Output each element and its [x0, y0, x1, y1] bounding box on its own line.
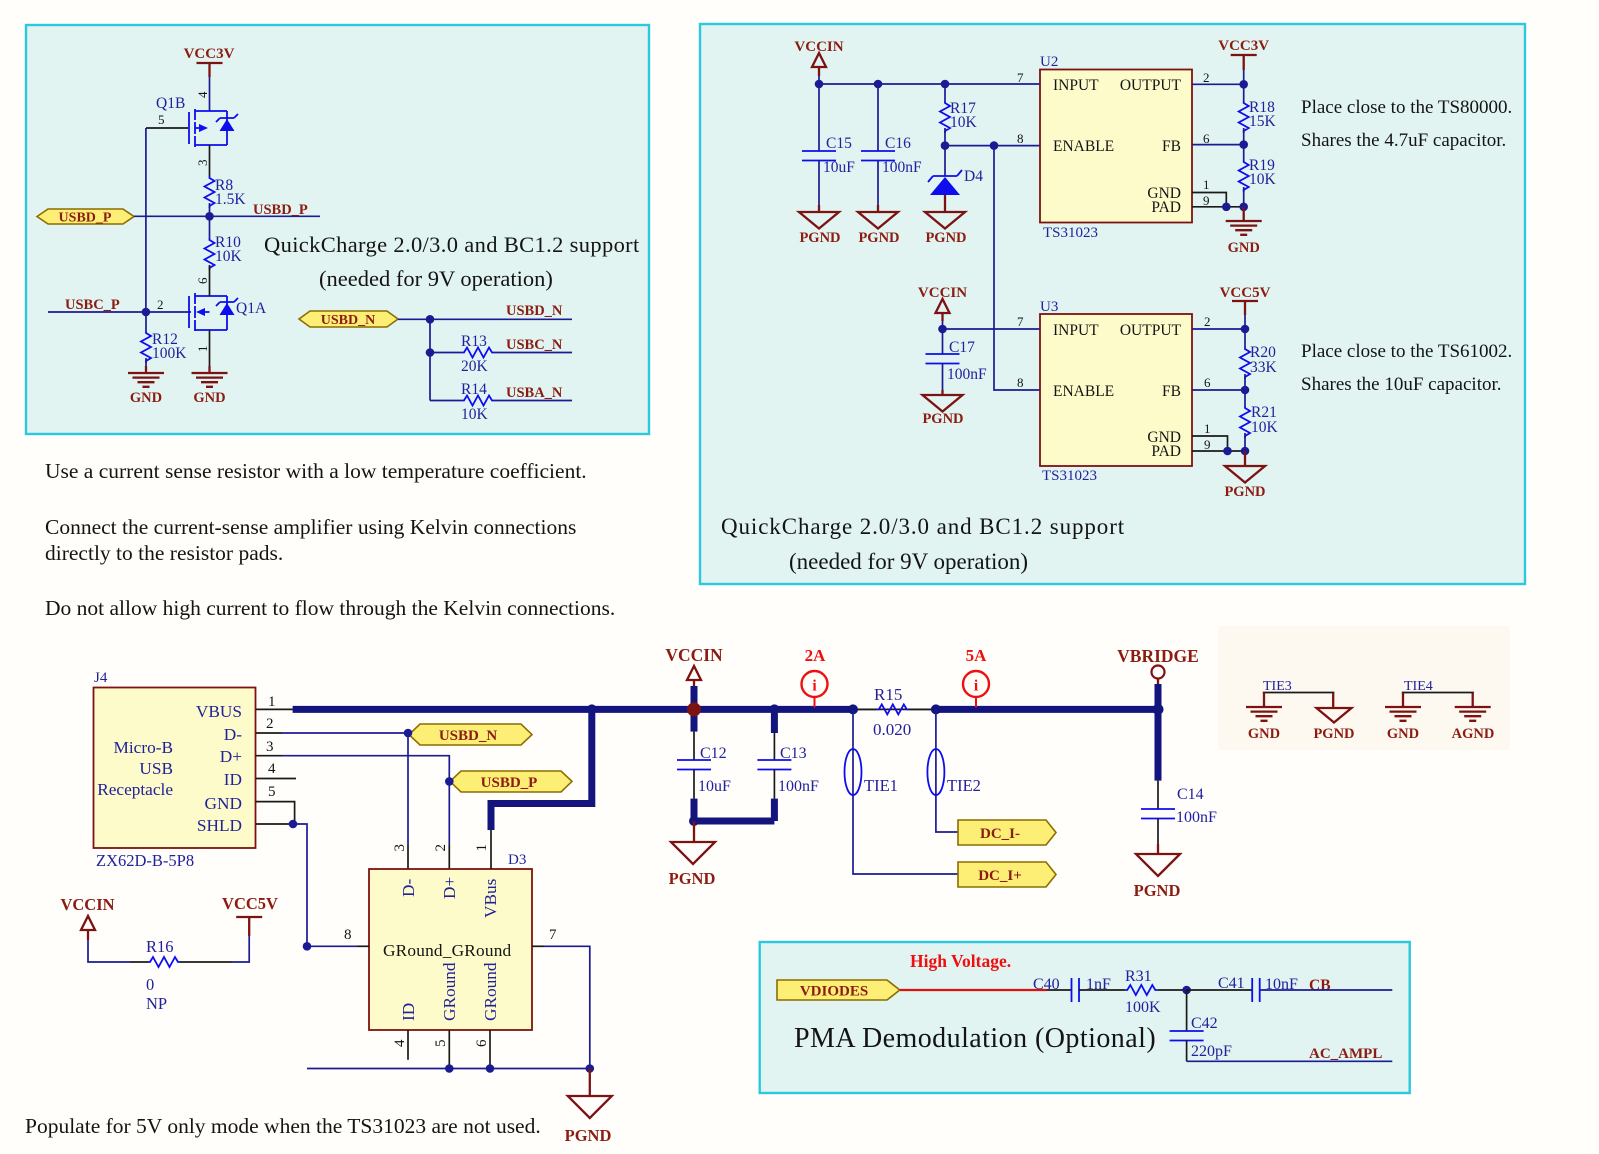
- power flag VCCIN (U2 input): [794, 39, 843, 84]
- svg-text:6: 6: [195, 277, 210, 284]
- resistor R14: [430, 381, 572, 423]
- svg-text:CB: CB: [1309, 977, 1331, 994]
- svg-text:C15: C15: [826, 135, 852, 152]
- svg-text:R13: R13: [461, 333, 487, 350]
- svg-text:Place close to the TS80000.: Place close to the TS80000.: [1301, 97, 1512, 118]
- ground PGND under C15: [799, 212, 841, 246]
- svg-text:AC_AMPL: AC_AMPL: [1309, 1046, 1382, 1062]
- wire ground rail bottom: [307, 1068, 590, 1070]
- svg-text:TS31023: TS31023: [1042, 468, 1097, 484]
- resistor R20: [1240, 329, 1278, 390]
- svg-text:10uF: 10uF: [823, 159, 855, 176]
- svg-text:100nF: 100nF: [882, 159, 922, 176]
- svg-text:GND: GND: [1228, 240, 1260, 256]
- svg-text:GRound_GRound: GRound_GRound: [383, 941, 512, 960]
- svg-text:VCC3V: VCC3V: [184, 46, 235, 62]
- op-amp U2 regulator TS31023: [1040, 54, 1192, 241]
- svg-text:R16: R16: [146, 937, 174, 956]
- wire U3 PAD pin9: [1192, 450, 1245, 452]
- svg-text:D3: D3: [508, 852, 526, 868]
- svg-text:8: 8: [1017, 131, 1024, 146]
- wire D3 pin5: [448, 1030, 450, 1069]
- svg-text:PGND: PGND: [565, 1126, 612, 1145]
- wire J4 D+ pin3: [256, 755, 282, 757]
- port flag VDIODES: [777, 980, 900, 1000]
- wire J4 GND pin5: [256, 802, 295, 824]
- wire U2 OUTPUT: [1192, 83, 1244, 85]
- capacitor C17: [926, 329, 988, 395]
- svg-text:0.020: 0.020: [873, 720, 911, 739]
- resistor R18: [1239, 84, 1277, 144]
- wire U3 OUTPUT: [1192, 328, 1245, 330]
- svg-text:GND: GND: [130, 390, 162, 406]
- svg-text:5: 5: [433, 1040, 449, 1048]
- svg-text:10K: 10K: [461, 406, 489, 423]
- svg-text:PGND: PGND: [922, 411, 963, 427]
- svg-text:VCC3V: VCC3V: [1218, 38, 1269, 54]
- wire Q1A source to GND: [209, 330, 211, 366]
- ground PGND under C12: [669, 821, 716, 888]
- svg-text:GND: GND: [1387, 726, 1419, 742]
- resistor R15: [853, 685, 936, 739]
- wire enable chain down to U3: [994, 146, 1040, 390]
- svg-text:2: 2: [1203, 70, 1210, 85]
- ground PGND bottom rail: [565, 1069, 612, 1146]
- wire D3 pin4 stub: [407, 1030, 409, 1060]
- wire U2 FB: [1192, 144, 1244, 146]
- wire thick VBus branch to D3: [491, 709, 592, 830]
- svg-text:VBRIDGE: VBRIDGE: [1117, 646, 1199, 666]
- svg-text:9: 9: [1203, 193, 1210, 208]
- ground GND (TIE4): [1385, 707, 1421, 742]
- svg-text:5A: 5A: [966, 646, 988, 665]
- wire USBD_P node to R10: [209, 216, 211, 238]
- net tie TIE1: [845, 709, 959, 874]
- svg-text:PGND: PGND: [1313, 726, 1354, 742]
- svg-text:100nF: 100nF: [947, 366, 987, 383]
- svg-text:ID: ID: [224, 770, 242, 789]
- svg-text:USBC_N: USBC_N: [506, 337, 563, 353]
- power flag VCCIN (R16): [60, 895, 130, 962]
- svg-text:(needed for 9V operation): (needed for 9V operation): [319, 266, 553, 291]
- transistor Q1B: [146, 95, 238, 147]
- wire USBC_P: [48, 311, 191, 313]
- svg-text:Q1A: Q1A: [236, 300, 267, 317]
- svg-text:3: 3: [266, 739, 274, 755]
- svg-text:Shares the 10uF capacitor.: Shares the 10uF capacitor.: [1301, 374, 1502, 395]
- port flag USBD_N: [299, 311, 398, 328]
- wire J4 ID pin4: [256, 778, 296, 780]
- svg-text:OUTPUT: OUTPUT: [1120, 77, 1182, 94]
- connector J4 micro-B USB: [94, 670, 256, 870]
- resistor R8: [205, 176, 247, 208]
- resistor R31: [1079, 968, 1187, 1016]
- svg-text:USBD_P: USBD_P: [59, 211, 112, 226]
- svg-text:VBus: VBus: [481, 878, 500, 918]
- port flag USBD_P: [37, 209, 134, 226]
- svg-text:J4: J4: [94, 670, 108, 686]
- svg-text:VCC5V: VCC5V: [222, 894, 278, 913]
- svg-text:QuickCharge 2.0/3.0 and BC1.2: QuickCharge 2.0/3.0 and BC1.2 support: [264, 232, 640, 257]
- net tie TIE2: [927, 709, 981, 832]
- svg-text:D+: D+: [220, 747, 242, 766]
- port flag USBD_P (J4): [450, 771, 572, 792]
- wire CB: [1260, 989, 1393, 991]
- ground GND under R12: [128, 373, 164, 406]
- diode D4 zener: [928, 146, 983, 212]
- power flag VCC3V (U2 out): [1218, 38, 1269, 84]
- capacitor C13: [757, 709, 819, 821]
- svg-text:10uF: 10uF: [698, 778, 731, 795]
- svg-text:10K: 10K: [1249, 171, 1277, 188]
- svg-text:INPUT: INPUT: [1053, 77, 1099, 94]
- svg-text:C42: C42: [1191, 1015, 1218, 1032]
- current probe 5A: [963, 646, 989, 708]
- svg-text:C17: C17: [949, 339, 975, 356]
- ground GND under Q1A: [192, 373, 228, 406]
- svg-text:GND: GND: [193, 390, 225, 406]
- svg-text:VCCIN: VCCIN: [60, 895, 114, 914]
- power flag VCC5V (U3 out): [1220, 285, 1271, 329]
- svg-text:1: 1: [268, 694, 276, 710]
- svg-text:10K: 10K: [950, 114, 978, 131]
- wire U3 FB: [1192, 389, 1245, 391]
- svg-text:TIE2: TIE2: [947, 776, 981, 795]
- svg-text:D4: D4: [964, 168, 983, 185]
- svg-text:7: 7: [549, 927, 557, 943]
- ground PGND under C16: [858, 212, 900, 246]
- svg-text:4: 4: [268, 761, 276, 777]
- ground PGND under C17: [922, 395, 963, 427]
- svg-text:C12: C12: [700, 745, 727, 762]
- svg-text:TIE1: TIE1: [864, 776, 898, 795]
- wire USBD_P: [134, 215, 320, 217]
- wire Q1B source to R8: [209, 145, 211, 176]
- wire D3 pin6: [489, 1030, 491, 1069]
- resistor R12: [141, 312, 187, 372]
- power flag VCC5V (R16): [222, 894, 278, 962]
- svg-text:C16: C16: [885, 135, 911, 152]
- capacitor C42: [1170, 990, 1232, 1061]
- svg-text:7: 7: [1017, 314, 1024, 329]
- svg-text:5: 5: [268, 784, 276, 800]
- svg-text:0: 0: [146, 975, 154, 994]
- svg-text:FB: FB: [1162, 138, 1181, 155]
- wire VBUS thick rail: [293, 706, 853, 713]
- power flag VCCIN (rail): [665, 645, 723, 709]
- svg-text:100K: 100K: [152, 345, 187, 362]
- wire R10 to Q1A drain: [209, 265, 211, 296]
- svg-text:3: 3: [392, 844, 408, 852]
- svg-text:2: 2: [433, 844, 449, 852]
- svg-text:Populate for 5V only mode when: Populate for 5V only mode when the TS310…: [25, 1114, 541, 1138]
- resistor R17: [940, 84, 978, 146]
- wire VCCIN to U3 INPUT: [943, 328, 1041, 330]
- svg-text:Connect the current-sense ampl: Connect the current-sense amplifier usin…: [45, 515, 576, 539]
- wire AC_AMPL: [1187, 1060, 1393, 1062]
- wire D- down to D3: [407, 733, 409, 845]
- svg-text:VCC5V: VCC5V: [1220, 285, 1271, 301]
- svg-text:PAD: PAD: [1151, 199, 1181, 216]
- power flag VCCIN (U3 input): [918, 285, 967, 329]
- port flag USBD_N (J4): [409, 724, 532, 745]
- svg-text:8: 8: [344, 927, 352, 943]
- svg-text:D-: D-: [399, 879, 418, 897]
- transistor Q1A: [189, 293, 267, 331]
- svg-text:VDIODES: VDIODES: [800, 984, 868, 1000]
- power port VBRIDGE: [1117, 646, 1199, 781]
- current probe 2A: [802, 646, 828, 708]
- svg-text:PGND: PGND: [799, 230, 840, 246]
- capacitor C40: [1033, 976, 1111, 1002]
- resistor R13: [430, 333, 572, 375]
- svg-text:C14: C14: [1177, 786, 1204, 803]
- wire USBD_N branch down: [429, 319, 431, 400]
- svg-text:PAD: PAD: [1151, 443, 1181, 460]
- port flag DC_I-: [958, 820, 1056, 845]
- svg-text:2: 2: [1204, 314, 1211, 329]
- wire U2 GND pin1: [1192, 193, 1226, 207]
- ground PGND (TIE3): [1313, 708, 1354, 742]
- capacitor C16: [861, 84, 922, 212]
- capacitor C41: [1187, 975, 1298, 1002]
- svg-text:FB: FB: [1162, 383, 1181, 400]
- svg-text:C13: C13: [780, 745, 807, 762]
- resistor R16: [130, 937, 232, 1013]
- node USBC_P junction: [142, 308, 151, 317]
- net tie TIE3: [1263, 679, 1335, 707]
- ground PGND under C14: [1134, 854, 1181, 900]
- wire high voltage (red): [900, 989, 1047, 991]
- schematic note box 2: [700, 24, 1525, 584]
- wire U2 PAD pin9: [1192, 206, 1244, 208]
- svg-text:TS31023: TS31023: [1043, 225, 1098, 241]
- svg-text:8: 8: [1017, 375, 1024, 390]
- schematic note box 1: [26, 25, 649, 434]
- wire USBD_N: [398, 318, 572, 320]
- svg-text:directly to the resistor pads.: directly to the resistor pads.: [45, 541, 283, 565]
- svg-text:High Voltage.: High Voltage.: [910, 951, 1011, 971]
- svg-text:PMA Demodulation (Optional): PMA Demodulation (Optional): [794, 1023, 1156, 1054]
- svg-text:i: i: [974, 678, 979, 695]
- svg-text:GND: GND: [1248, 726, 1280, 742]
- wire VCCIN bus to U2 INPUT: [819, 83, 1040, 85]
- wire J4 SHLD: [256, 823, 293, 825]
- svg-text:1: 1: [1204, 421, 1211, 436]
- svg-text:NP: NP: [146, 994, 167, 1013]
- ground PGND under D4: [925, 212, 967, 246]
- wire D3 pin7: [532, 945, 544, 947]
- wire VCC3V to Q1B drain: [209, 77, 211, 111]
- ground AGND (TIE4): [1452, 707, 1495, 742]
- svg-text:VCCIN: VCCIN: [665, 645, 723, 665]
- svg-text:USBD_P: USBD_P: [253, 202, 308, 218]
- svg-text:220pF: 220pF: [1191, 1043, 1232, 1060]
- svg-text:Use a current sense resistor w: Use a current sense resistor with a low …: [45, 459, 587, 483]
- capacitor C12: [677, 709, 731, 821]
- resistor R19: [1239, 145, 1277, 207]
- power flag VCC3V: [184, 46, 235, 77]
- svg-text:6: 6: [1204, 375, 1211, 390]
- svg-text:5: 5: [158, 112, 165, 127]
- svg-text:ENABLE: ENABLE: [1053, 138, 1114, 155]
- svg-text:U2: U2: [1040, 54, 1058, 70]
- svg-text:DC_I+: DC_I+: [978, 868, 1022, 884]
- capacitor C15: [802, 84, 855, 212]
- wire D3 pin8: [307, 945, 357, 947]
- svg-text:i: i: [812, 678, 817, 695]
- svg-text:Receptacle: Receptacle: [97, 780, 173, 799]
- svg-text:20K: 20K: [461, 358, 489, 375]
- wire U3 GND pin1: [1192, 436, 1228, 451]
- node VCCIN junction: [687, 702, 701, 716]
- svg-text:C41: C41: [1218, 975, 1245, 992]
- port flag DC_I+: [958, 862, 1056, 887]
- wire gate Q1B to USBC_P node: [145, 128, 147, 312]
- svg-text:USBD_N: USBD_N: [321, 313, 375, 328]
- ground PGND under U3: [1224, 451, 1265, 500]
- svg-text:ZX62D-B-5P8: ZX62D-B-5P8: [96, 851, 194, 870]
- resistor R10: [205, 234, 243, 270]
- svg-text:3: 3: [195, 160, 210, 167]
- svg-text:GND: GND: [205, 794, 242, 813]
- wire ENABLE U2: [945, 145, 1040, 147]
- svg-text:Do not allow high current to f: Do not allow high current to flow throug…: [45, 596, 615, 620]
- wire shield to ground rail: [293, 824, 307, 946]
- svg-text:15K: 15K: [1249, 113, 1277, 130]
- svg-text:GRound: GRound: [440, 962, 459, 1021]
- svg-text:10K: 10K: [215, 248, 243, 265]
- node USBD_N junction: [426, 315, 435, 324]
- svg-text:Q1B: Q1B: [156, 95, 185, 112]
- svg-text:PGND: PGND: [858, 230, 899, 246]
- svg-text:7: 7: [1017, 70, 1024, 85]
- svg-text:USBD_P: USBD_P: [481, 775, 538, 791]
- svg-text:AGND: AGND: [1452, 726, 1495, 742]
- svg-text:9: 9: [1204, 437, 1211, 452]
- svg-text:33K: 33K: [1250, 359, 1278, 376]
- svg-text:2: 2: [157, 297, 164, 312]
- svg-text:R15: R15: [874, 685, 902, 704]
- svg-text:PGND: PGND: [925, 230, 966, 246]
- capacitor C14: [1141, 781, 1217, 854]
- svg-text:ENABLE: ENABLE: [1053, 383, 1114, 400]
- ground GND (TIE3): [1246, 707, 1282, 742]
- schematic note box 3 PMA: [760, 942, 1410, 1093]
- resistor R21: [1240, 390, 1279, 451]
- svg-text:USBA_N: USBA_N: [506, 385, 563, 401]
- svg-text:PGND: PGND: [1134, 881, 1181, 900]
- ground GND under U2: [1226, 207, 1262, 256]
- svg-text:2: 2: [266, 716, 274, 732]
- svg-text:6: 6: [474, 1039, 490, 1047]
- wire R8 to node USBD_P: [209, 203, 211, 216]
- svg-text:D+: D+: [440, 877, 459, 899]
- diode array D3: [369, 852, 532, 1030]
- svg-text:INPUT: INPUT: [1053, 322, 1099, 339]
- svg-text:GRound: GRound: [481, 962, 500, 1021]
- svg-text:Place close to the TS61002.: Place close to the TS61002.: [1301, 341, 1512, 362]
- svg-text:DC_I-: DC_I-: [980, 826, 1020, 842]
- svg-text:PGND: PGND: [669, 869, 716, 888]
- wire thick cap bottoms: [694, 818, 774, 825]
- svg-text:100nF: 100nF: [1176, 809, 1217, 826]
- svg-text:USBD_N: USBD_N: [439, 728, 498, 744]
- svg-text:PGND: PGND: [1224, 484, 1265, 500]
- svg-text:4: 4: [195, 91, 210, 98]
- svg-text:2A: 2A: [805, 646, 827, 665]
- svg-text:100nF: 100nF: [778, 778, 819, 795]
- svg-text:VBUS: VBUS: [196, 702, 242, 721]
- op-amp U3 regulator TS31023: [1040, 299, 1192, 484]
- svg-text:R14: R14: [461, 381, 487, 398]
- svg-text:1.5K: 1.5K: [215, 191, 246, 208]
- wire J4 VBUS pin1: [256, 708, 293, 710]
- net tie TIE4: [1402, 679, 1474, 707]
- svg-text:SHLD: SHLD: [197, 816, 242, 835]
- svg-text:10K: 10K: [1251, 419, 1279, 436]
- svg-text:R31: R31: [1125, 968, 1152, 985]
- svg-text:USBC_P: USBC_P: [65, 297, 120, 313]
- faint panel behind TIE3/TIE4: [1218, 626, 1510, 750]
- svg-text:1: 1: [474, 844, 490, 852]
- svg-text:C40: C40: [1033, 976, 1060, 993]
- svg-text:USB: USB: [139, 759, 173, 778]
- wire J4 D- pin2: [256, 732, 282, 734]
- svg-text:ID: ID: [399, 1003, 418, 1021]
- svg-text:Shares the 4.7uF capacitor.: Shares the 4.7uF capacitor.: [1301, 130, 1506, 151]
- svg-text:USBD_N: USBD_N: [506, 303, 563, 319]
- node USBD_P junction: [205, 212, 214, 221]
- svg-text:100K: 100K: [1125, 999, 1161, 1016]
- svg-text:D-: D-: [224, 725, 242, 744]
- svg-text:(needed for 9V operation): (needed for 9V operation): [789, 549, 1028, 574]
- svg-text:4: 4: [392, 1039, 408, 1047]
- svg-text:QuickCharge 2.0/3.0 and BC1.2: QuickCharge 2.0/3.0 and BC1.2 support: [721, 514, 1125, 539]
- svg-text:OUTPUT: OUTPUT: [1120, 322, 1182, 339]
- svg-text:1: 1: [195, 346, 210, 353]
- svg-text:Micro-B: Micro-B: [113, 738, 173, 757]
- svg-text:U3: U3: [1040, 299, 1058, 315]
- svg-text:1: 1: [1203, 177, 1210, 192]
